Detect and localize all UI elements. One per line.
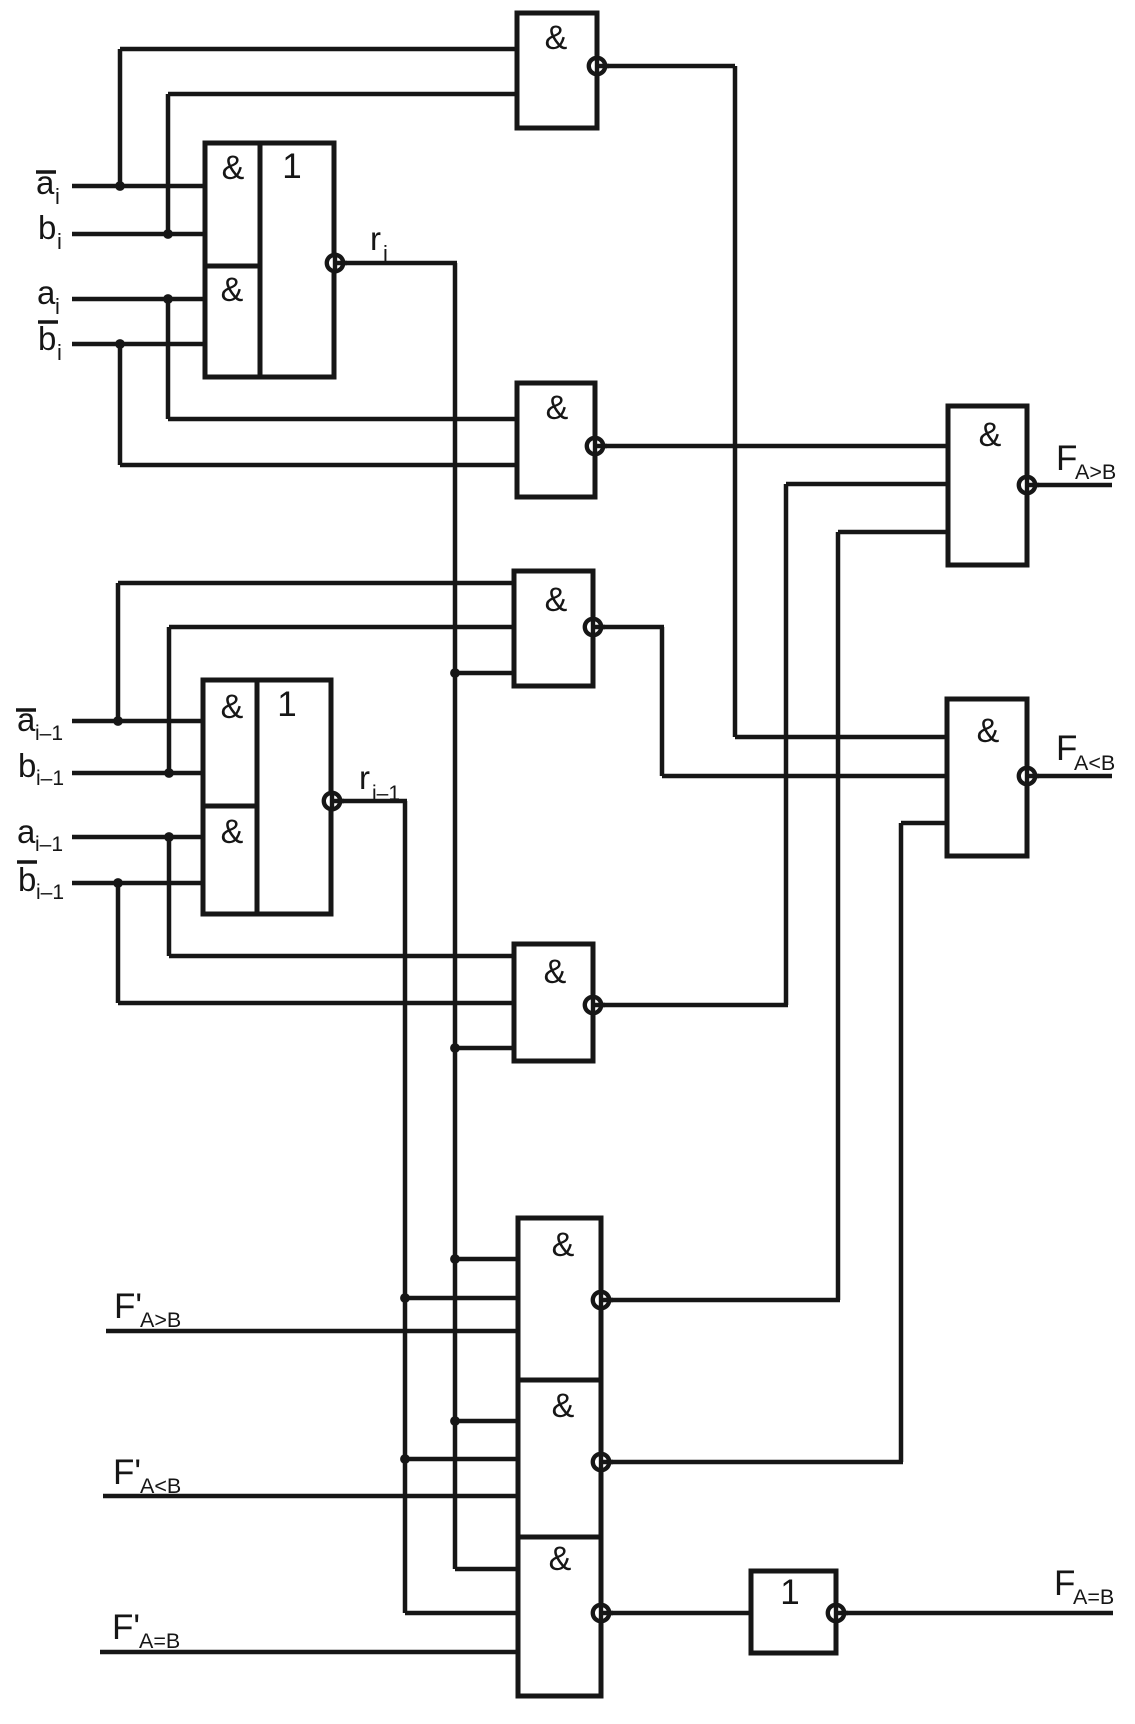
svg-text:b: b: [38, 320, 56, 357]
svg-text:&: &: [552, 1387, 575, 1425]
svg-text:F': F': [113, 1453, 141, 1492]
svg-text:&: &: [977, 712, 1000, 750]
svg-text:1: 1: [277, 685, 296, 724]
svg-text:r: r: [370, 220, 381, 257]
svg-text:b: b: [18, 747, 36, 784]
svg-text:i: i: [383, 241, 388, 266]
svg-text:i–1: i–1: [35, 833, 63, 856]
svg-text:b: b: [38, 209, 56, 246]
svg-text:i–1: i–1: [372, 782, 400, 805]
svg-text:r: r: [359, 759, 370, 796]
svg-text:&: &: [221, 271, 244, 309]
svg-text:F': F': [112, 1608, 140, 1647]
svg-text:&: &: [545, 19, 568, 57]
svg-text:A<B: A<B: [1074, 751, 1115, 775]
svg-text:A=B: A=B: [139, 1629, 180, 1653]
svg-text:A=B: A=B: [1073, 1585, 1114, 1609]
svg-text:i: i: [57, 340, 62, 365]
svg-text:i: i: [55, 294, 60, 319]
svg-text:b: b: [18, 861, 36, 898]
svg-text:&: &: [546, 389, 569, 427]
svg-text:F': F': [114, 1287, 142, 1326]
svg-text:i–1: i–1: [36, 881, 64, 904]
svg-text:a: a: [36, 164, 55, 201]
svg-text:&: &: [549, 1540, 572, 1578]
svg-text:&: &: [544, 953, 567, 991]
svg-text:i: i: [57, 229, 62, 254]
svg-text:&: &: [545, 581, 568, 619]
svg-text:a: a: [37, 274, 56, 311]
svg-text:&: &: [221, 688, 244, 726]
svg-text:a: a: [17, 813, 36, 850]
svg-text:i: i: [55, 184, 60, 209]
svg-text:i–1: i–1: [36, 767, 64, 790]
svg-text:1: 1: [780, 1573, 799, 1612]
svg-text:A<B: A<B: [140, 1474, 181, 1498]
svg-text:&: &: [221, 813, 244, 851]
svg-text:a: a: [17, 701, 36, 738]
svg-text:1: 1: [282, 147, 301, 186]
svg-text:&: &: [979, 416, 1002, 454]
svg-text:A>B: A>B: [140, 1308, 181, 1332]
svg-text:&: &: [552, 1226, 575, 1264]
svg-text:&: &: [222, 149, 245, 187]
svg-text:i–1: i–1: [35, 722, 63, 745]
svg-text:A>B: A>B: [1075, 460, 1116, 484]
